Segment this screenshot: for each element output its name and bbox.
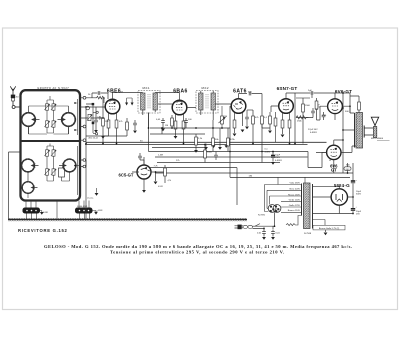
- V4 plate resistor: [288, 120, 291, 134]
- svg-text:4-8381: 4-8381: [275, 160, 283, 162]
- V7 grid leak resistor: [164, 165, 167, 183]
- chassis ground bus: [8, 218, 247, 221]
- extra density: grid cap 6C5: [138, 153, 144, 165]
- svg-text:Nero 220V: Nero 220V: [290, 187, 301, 190]
- trimmer capacitors upper row: [44, 104, 56, 127]
- svg-text:1M: 1M: [224, 116, 227, 118]
- bus to V6 grid: [149, 152, 327, 168]
- capacitor 0,1 x313: [296, 108, 315, 118]
- oscillator level ground: [95, 188, 99, 196]
- V7 cathode ground: [154, 182, 158, 185]
- svg-text:350V: 350V: [275, 157, 281, 159]
- thermistor to primary: [286, 216, 302, 226]
- vertical riser x148 MF1 secondary: [148, 113, 150, 129]
- extra density: AVC resistor x172: [171, 115, 174, 129]
- B plus riser x343: [342, 93, 344, 140]
- box inner right rail + junctions: [74, 99, 79, 195]
- detector filter capacitor x247: [245, 110, 253, 129]
- output transformer T2: [343, 113, 364, 149]
- svg-text:1M: 1M: [165, 125, 168, 127]
- V4 wiring: [283, 93, 296, 144]
- bypass electrolytic markers: [212, 145, 228, 148]
- V5 wiring: [320, 93, 350, 120]
- heater bus drop x353: [352, 163, 354, 173]
- B+ feed from rectifier to transformer top: [342, 140, 344, 173]
- bus mid 2: [150, 133, 205, 135]
- junction dots on buses: [85, 105, 354, 214]
- coil L1: [22, 106, 40, 134]
- agc arrows below grid cap: [125, 103, 134, 106]
- IF amplifier tube V2 6BA6: [172, 100, 187, 115]
- wave switch section S1b: [75, 201, 93, 220]
- svg-text:Rosso 160V: Rosso 160V: [288, 194, 300, 196]
- speaker field label line: [377, 139, 390, 141]
- ground right of S1b: [93, 211, 98, 215]
- coil L3: [22, 159, 39, 172]
- svg-text:N.7091: N.7091: [258, 215, 266, 217]
- svg-text:4-581: 4-581: [158, 186, 163, 188]
- svg-text:6V6-GT: 6V6-GT: [335, 89, 352, 94]
- V3 diode return ground: [241, 130, 245, 133]
- riser x350: [349, 106, 351, 113]
- svg-text:4-8381: 4-8381: [310, 132, 318, 134]
- V2 screen resistor: [182, 121, 185, 144]
- oscillator tap terminal: [86, 106, 90, 110]
- oscillator coil squiggle: [86, 96, 104, 103]
- V6 cathode resistor 600 ohm: [344, 163, 351, 173]
- bus heater: [155, 172, 353, 174]
- oscillator coupling capacitor: [92, 91, 108, 99]
- output tube V5 6V6-GT: [328, 99, 343, 114]
- svg-text:5000: 5000: [207, 152, 213, 154]
- svg-text:5W4-G: 5W4-G: [334, 183, 350, 188]
- mid components right of V3: [261, 110, 270, 128]
- T1 primary taps: [265, 177, 306, 212]
- svg-text:Tensione al primo elettrolitic: Tensione al primo elettrolitico 295 V, a…: [110, 249, 284, 254]
- extra density: box edge terminals: [80, 159, 86, 168]
- coil L2: [58, 106, 76, 134]
- mains plug and cord: [235, 212, 276, 229]
- svg-text:RICEVITORE G.152: RICEVITORE G.152: [18, 228, 68, 233]
- zigzag resistor 250k: [296, 116, 308, 119]
- oscillator padder trimmer: [87, 114, 92, 120]
- oscillator section terminals: [80, 96, 105, 219]
- box bottom centre pin: [56, 201, 58, 220]
- V5 grid capacitor: [322, 112, 326, 120]
- svg-text:N.581: N.581: [43, 212, 48, 214]
- oscillator feedback node: [86, 103, 98, 135]
- extra density: resistor 0,47 column: [315, 98, 320, 120]
- voltage selector plug: [268, 205, 281, 213]
- svg-text:1500: 1500: [305, 105, 311, 107]
- svg-text:Liv.osc.: Liv.osc.: [87, 198, 94, 200]
- V1 screen resistor: [115, 120, 118, 144]
- filter electrolytic 16uF: [351, 173, 355, 197]
- svg-text:GRUPPO AF N.5627: GRUPPO AF N.5627: [37, 86, 69, 90]
- extra density: riser x162: [161, 127, 163, 134]
- svg-text:25V: 25V: [356, 214, 360, 216]
- svg-text:4,7k: 4,7k: [168, 180, 172, 182]
- extra density: short bus y147: [152, 147, 205, 149]
- bus lower 2: [157, 162, 280, 164]
- V2 cathode resistor: [174, 121, 178, 139]
- svg-text:M.F.2: M.F.2: [201, 86, 208, 90]
- bus mid 3: [86, 135, 127, 137]
- svg-text:500V: 500V: [356, 194, 362, 196]
- mid network resistor R 5000: [204, 144, 207, 163]
- left ground riser wire: [9, 152, 21, 220]
- screen resistor x253: [252, 110, 255, 144]
- bus lower 1: [155, 156, 308, 158]
- detector tube V3 6AT6: [231, 99, 246, 114]
- svg-text:AT-4 10-14: AT-4 10-14: [89, 136, 98, 139]
- IF transformer MF2: [196, 91, 218, 114]
- oscillator triode V7 6C5-GT: [137, 165, 151, 179]
- extra density: ground arrows mid: [204, 128, 222, 150]
- svg-text:Giallo 125V: Giallo 125V: [289, 205, 301, 207]
- svg-text:6SN7-GT: 6SN7-GT: [277, 86, 298, 91]
- V1 cathode resistor: [103, 120, 110, 136]
- ground right of S1a: [40, 211, 44, 215]
- resistor x270: [268, 112, 272, 133]
- bus mid 1: [150, 127, 230, 129]
- svg-text:M.F.15/6800: M.F.15/6800: [371, 138, 384, 140]
- long bus B+: [85, 144, 308, 146]
- long bus AVC upper: [86, 141, 327, 143]
- wire stubs for agc arrows: [127, 98, 133, 103]
- mid resistor x213: [212, 120, 215, 152]
- svg-text:GELOSO - Mod. G 152. Onde medi: GELOSO - Mod. G 152. Onde medie da 190 a…: [44, 244, 352, 249]
- svg-text:Viola 260V: Viola 260V: [289, 183, 300, 185]
- svg-text:Verde 140V: Verde 140V: [289, 199, 301, 202]
- svg-text:2μF: 2μF: [308, 90, 312, 92]
- output tube V6 6V6-GT: [327, 145, 341, 159]
- extra density: riser x262 detector out: [261, 124, 263, 163]
- IF transformer MF1: [138, 91, 160, 114]
- bus lower 3: [150, 168, 237, 205]
- svg-text:Bianco-Giallo 5,7V (2): Bianco-Giallo 5,7V (2): [319, 228, 340, 230]
- trimmer capacitors lower row: [44, 150, 56, 175]
- coil L4: [59, 159, 76, 172]
- extra density: resistor 500 to OT: [350, 96, 360, 113]
- extra density: 6SN7 grid feed: [271, 106, 279, 112]
- heater winding label box: [313, 220, 346, 236]
- filter electrolytic 20uF: [351, 197, 355, 214]
- resistor x303: [296, 98, 310, 117]
- extra density: top bus 6V6: [335, 92, 350, 94]
- extra density: heater drop continue: [229, 152, 231, 178]
- V3 coupling capacitor: [249, 92, 262, 110]
- audio tube V4 6SN7-GT: [279, 99, 294, 114]
- svg-text:M.F.1: M.F.1: [142, 86, 149, 90]
- MF1 wiring: [143, 93, 180, 152]
- coupling capacitor 2uF: [295, 91, 335, 98]
- extra density: riser x303 down: [302, 117, 304, 144]
- volume potentiometer: [219, 106, 226, 128]
- speaker: [364, 117, 379, 137]
- svg-text:4-581: 4-581: [265, 151, 271, 153]
- svg-text:6AT6: 6AT6: [233, 89, 247, 95]
- line filter capacitor C2: [271, 230, 275, 240]
- coil L5: [22, 172, 37, 193]
- wave switch section S1a: [23, 201, 41, 220]
- converter tube V1 6BE6: [105, 99, 120, 114]
- heater drop x230: [229, 106, 231, 152]
- svg-text:6BA6: 6BA6: [173, 89, 188, 95]
- small value labels: [16, 90, 384, 235]
- tuner box divider: [21, 140, 80, 142]
- ground below V7: [142, 190, 146, 193]
- dot on plate resistor: [289, 134, 291, 144]
- junction dot y118: [102, 117, 104, 119]
- svg-text:4-583: 4-583: [98, 210, 103, 212]
- V1 bypass capacitor: [94, 107, 98, 133]
- ground arrow V1 cathode: [101, 136, 105, 139]
- padder block N.560: [59, 168, 65, 177]
- V3 wiring: [235, 94, 248, 127]
- transformer tap labels: [288, 183, 301, 213]
- V2 agc capacitor: [161, 118, 165, 131]
- V3 diode load resistor: [233, 120, 237, 136]
- power transformer T1: [302, 183, 313, 229]
- antenna: [10, 86, 20, 108]
- bus 180: [230, 176, 350, 178]
- tuner unit box (GRUPPO AF): [21, 90, 81, 200]
- svg-text:GT: GT: [331, 168, 337, 173]
- svg-text:6BE6: 6BE6: [107, 88, 121, 94]
- V7 wiring: [132, 157, 165, 190]
- extra density: V1 stage cap: [133, 120, 137, 133]
- svg-text:1,5M: 1,5M: [158, 155, 163, 157]
- svg-text:27μF 30V: 27μF 30V: [308, 129, 318, 131]
- V8 wiring: [313, 186, 354, 213]
- svg-text:6C5-GT: 6C5-GT: [119, 172, 134, 177]
- V6 wiring: [316, 140, 356, 173]
- mid resistor under MF2: [194, 134, 198, 153]
- V1 wiring: [103, 93, 143, 144]
- extra density: V1 stage resistor third: [126, 118, 129, 136]
- svg-text:N.7948: N.7948: [304, 233, 312, 235]
- mid resistor x228: [227, 128, 230, 152]
- svg-text:Bianco 110V: Bianco 110V: [288, 210, 301, 212]
- rectifier tube V8 5W4-G: [331, 189, 347, 205]
- mid capacitor x186: [184, 118, 188, 128]
- wires inside box lower: [28, 144, 70, 199]
- V1 grid resistor: [102, 118, 105, 126]
- electrolytic 10uF: [271, 151, 275, 165]
- MF2 wiring: [201, 91, 231, 120]
- V2 wiring: [176, 93, 197, 122]
- V4 cathode resistor: [281, 120, 285, 137]
- svg-text:10μF: 10μF: [275, 155, 281, 157]
- wires inside box upper: [29, 96, 69, 134]
- extra density: cap x216: [214, 152, 218, 161]
- AVC resistor x275.5: [274, 112, 277, 142]
- line filter capacitor C1: [262, 228, 266, 239]
